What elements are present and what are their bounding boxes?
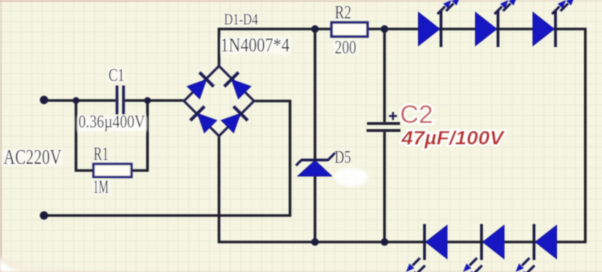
svg-text:D5: D5 (335, 147, 352, 167)
svg-text:AC220V: AC220V (4, 145, 62, 169)
svg-text:1N4007*4: 1N4007*4 (221, 35, 290, 57)
svg-text:C1: C1 (109, 65, 125, 85)
svg-text:C2: C2 (400, 101, 433, 129)
svg-text:47µF/100V: 47µF/100V (400, 129, 505, 150)
svg-text:R2: R2 (335, 2, 352, 23)
svg-text:1M: 1M (93, 177, 109, 198)
svg-text:200: 200 (335, 37, 357, 58)
svg-text:0.36µ400V: 0.36µ400V (79, 112, 146, 132)
svg-text:R1: R1 (94, 144, 109, 165)
svg-text:D1-D4: D1-D4 (224, 12, 258, 29)
